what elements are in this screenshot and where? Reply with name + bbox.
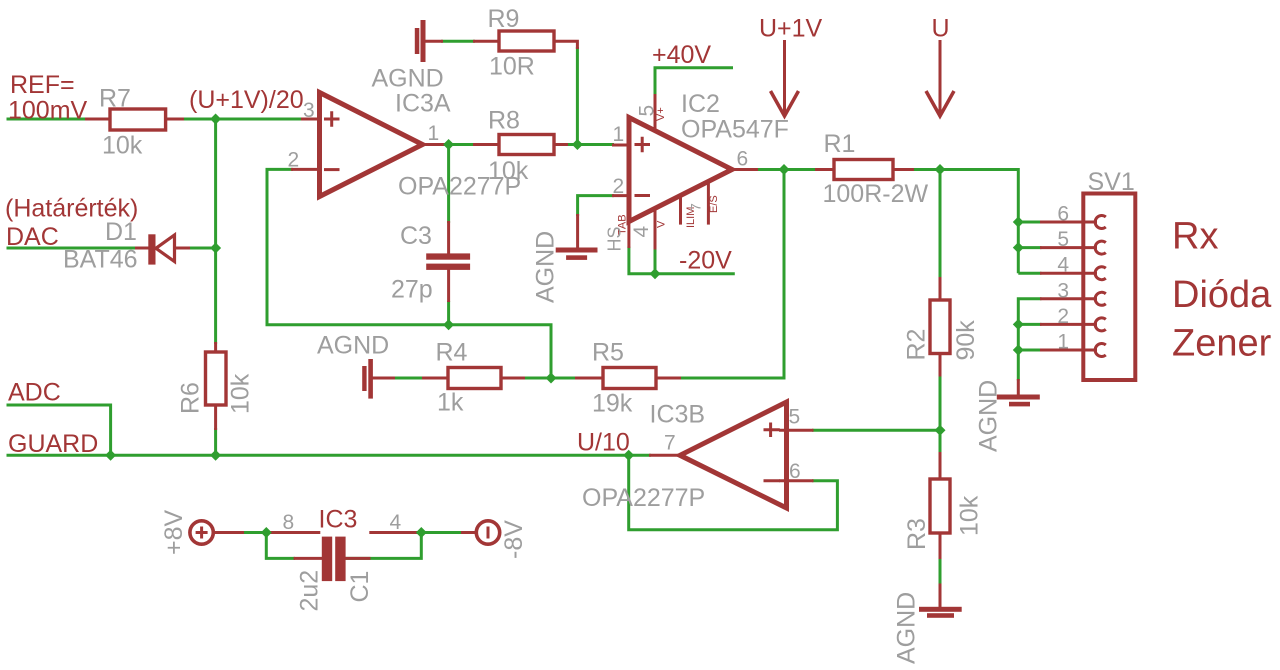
resistor R7 leads [85,118,110,121]
svg-text:R8: R8 [488,107,520,135]
svg-text:+40V: +40V [652,41,711,69]
supply +8V lead [214,531,245,534]
op-amp IC3B pin5 lead [779,429,814,432]
junction IC3A output [443,139,454,150]
capacitor C3 leads [447,221,450,254]
wire IC3 pin4 to -8V [417,531,463,534]
svg-text:(Határérték): (Határérték) [5,195,138,223]
resistor R4 leads [372,377,396,380]
svg-text:1: 1 [428,122,440,145]
connector SV1 ground lead [1017,379,1020,395]
wire vertical bus x=215.6 from node A down to R6 [214,119,217,344]
op-amp IC2 pin4 V- lead [654,207,657,250]
svg-text:10k: 10k [956,495,984,536]
wire AGND R4 gap [395,377,422,380]
svg-text:5: 5 [1057,228,1069,251]
connector SV1 pin3 hook [1095,292,1106,305]
wire +40V to IC2 pin5 [655,68,733,96]
ground AGND symbol at IC2 pin2 [556,248,598,253]
resistor R2 leads [939,277,942,301]
junction node A [210,114,221,125]
op-amp IC2 output lead pin6 [732,168,758,171]
op-amp IC2 pin7 ILIM lead [679,196,682,225]
svg-text:8: 8 [283,511,295,534]
svg-text:2: 2 [288,149,300,172]
op-amp IC2 triangle [629,118,732,222]
connector SV1 pin4 hook [1095,267,1106,280]
svg-text:1: 1 [613,123,625,146]
wire net (U+1V)/20 from R7 to IC3A pin3 [182,118,303,121]
wire R8 right to node C [566,143,614,146]
svg-text:U+1V: U+1V [759,15,823,43]
wire IC2 pin4 to -20V rail [654,248,657,274]
svg-text:R3: R3 [903,518,931,550]
connector SV1 pin3 lead [1040,297,1097,300]
wire +8V to IC3 pin8 [242,531,272,534]
wire IC3B pin5 to node F [812,429,941,432]
capacitor C3 plates [426,253,470,259]
svg-text:4: 4 [1057,254,1069,277]
connector SV1 box [1083,194,1135,381]
capacitor C1 plates [322,537,332,582]
connector SV1 pin6 lead [1040,221,1097,224]
svg-text:7: 7 [688,203,704,211]
svg-text:DAC: DAC [6,223,59,251]
svg-text:3: 3 [1057,279,1069,302]
supply +8V symbol [190,521,213,544]
svg-text:OPA547F: OPA547F [681,116,789,144]
svg-text:2u2: 2u2 [296,570,324,612]
svg-text:AGND: AGND [317,332,389,360]
op-amp IC2 minus mark [635,194,651,197]
supply -8V symbol [476,521,499,544]
diode D1 lead [135,247,190,250]
junction SV1 pin1 [1013,345,1024,356]
connector SV1 pin2 hook [1095,318,1106,331]
wire SV1 pin1 stub [1018,349,1041,352]
wire IC3A output down to C3 [447,145,450,224]
resistor R9 leads [425,40,443,43]
wire C3 bottom to feedback node [447,301,450,325]
svg-text:4: 4 [630,226,653,238]
resistor R3 [930,479,950,533]
svg-text:(U+1V)/20: (U+1V)/20 [189,86,304,114]
svg-text:R9: R9 [488,5,520,33]
junction IC3 pin8 [261,527,272,538]
svg-text:U/10: U/10 [577,429,630,457]
svg-text:OPA2277P: OPA2277P [582,484,705,512]
svg-text:SV1: SV1 [1088,168,1135,196]
svg-text:1: 1 [1057,331,1069,354]
wire net ADC [7,405,111,455]
svg-text:AGND: AGND [372,65,444,93]
wire SV1 pin5 stub [1018,246,1041,249]
wire IC2 TAB/HS down to -20V rail [629,247,735,274]
op-amp IC3A triangle [320,93,423,197]
svg-text:R6: R6 [177,382,205,414]
junction C3 bottom [443,319,454,330]
connector SV1 pin5 hook [1095,241,1106,254]
connector SV1 pin6 hook [1095,216,1106,229]
svg-text:10R: 10R [489,53,535,81]
svg-text:AGND: AGND [975,380,1003,452]
svg-text:27p: 27p [391,276,433,304]
svg-text:10k: 10k [227,373,255,414]
junction SV1 pin2 [1013,319,1024,330]
svg-text:AGND: AGND [893,592,921,664]
svg-text:2: 2 [613,175,625,198]
connector SV1 pin4 lead [1040,272,1097,275]
op-amp IC2 TAB lead [627,222,630,249]
svg-text:7: 7 [664,432,676,455]
junction node E (R1/R2/SV1) [935,164,946,175]
svg-text:R7: R7 [99,85,131,113]
connector SV1 pin1 hook [1095,344,1106,357]
svg-text:1k: 1k [437,389,464,417]
svg-text:100mV: 100mV [8,96,88,124]
svg-text:C1: C1 [346,571,374,603]
wire node E to SV1 upper pins [940,170,1018,274]
wire net GUARD horizontal [7,454,652,457]
IC3 pin4 lead [369,531,419,534]
power arrow U [939,40,942,113]
wire node E down to R2 [939,170,942,279]
op-amp IC3A plus mark [324,111,340,127]
junction SV1 pin6 [1013,217,1024,228]
ground AGND symbol at R4 (rotated) [368,359,373,399]
connector SV1 pin1 lead [1040,349,1097,352]
svg-text:V: V [656,220,668,228]
svg-text:ADC: ADC [8,379,61,407]
junction node F (R2/R3/IC3B pin5) [935,425,946,436]
svg-text:R2: R2 [903,329,931,361]
op-amp IC2 plus mark [635,137,651,153]
svg-text:R1: R1 [824,130,856,158]
resistor R1 leads [815,168,835,171]
resistor R4 [448,368,501,389]
op-amp IC3B output lead pin7 [649,454,681,457]
resistor R5 leads [575,377,604,380]
op-amp IC3A minus mark [324,168,340,171]
resistor R7 [110,109,166,130]
svg-text:R5: R5 [592,339,624,367]
wire R2 bottom to R3 via node F [939,375,942,454]
svg-text:Zener: Zener [1172,323,1272,365]
op-amp IC3A pin3 lead [301,118,320,121]
svg-text:-8V: -8V [500,520,528,559]
svg-text:IC3A: IC3A [395,90,451,118]
wire IC2 pin2 to AGND [578,196,614,216]
op-amp IC2 pin1 lead [612,144,629,147]
svg-text:R4: R4 [436,339,468,367]
supply -8V lead [461,531,476,534]
wire AGND to R9 [441,40,475,43]
wire net REF left of R7 [7,118,108,121]
resistor R3 leads [939,452,942,480]
wire SV1 pin6 stub [1018,221,1041,224]
wire node D down to R5 right lead [681,170,784,379]
svg-text:IC3: IC3 [319,506,358,534]
svg-text:OPA2277P: OPA2277P [398,173,521,201]
power arrow U+1V [783,40,786,113]
svg-text:-20V: -20V [679,247,732,275]
wire IC3A pin2 feedback loop [267,169,551,378]
junction node B (DAC) [210,243,221,254]
svg-text:5: 5 [789,406,801,429]
resistor R6 [206,352,227,405]
svg-text:4: 4 [390,511,402,534]
op-amp IC2 E/S lead [707,182,710,225]
op-amp IC2 pin5 V+ lead [654,94,657,130]
junction ADC/GUARD [105,450,116,461]
svg-text:3: 3 [303,99,315,122]
junction SV1 pin5 [1013,242,1024,253]
wire IC3B pin6 feedback loop [629,455,838,529]
connector SV1 pin5 lead [1040,246,1097,249]
svg-text:Rx: Rx [1172,216,1218,258]
junction node C (R8/R9/IC2 pin1) [572,139,583,150]
wire R9 right down to node C [576,47,579,145]
wire IC3A output to R8 [445,143,475,146]
wire net DAC left of D1 [7,247,138,250]
ground AGND symbol below R3 [919,607,962,612]
wire R4 right to node [525,377,577,380]
svg-text:6: 6 [789,460,801,483]
wire R1 right to node E [912,168,941,171]
wire R6 bottom to GUARD [214,428,217,455]
resistor R8 leads [473,143,499,146]
svg-text:Dióda: Dióda [1172,274,1272,316]
wire D1 cathode to node B [189,247,216,250]
wire SV1 lower pins bus to AGND [1018,299,1041,381]
resistor R9 [499,31,554,51]
wire SV1 pin4 stub [1018,272,1041,275]
svg-text:REF=: REF= [10,71,75,99]
wire C1 right loop [345,533,422,559]
junction IC3 pin4 [416,527,427,538]
svg-text:100R-2W: 100R-2W [823,180,929,208]
op-amp IC3B triangle [680,402,787,508]
diode D1 cathode bar [148,234,155,264]
resistor R1 [834,160,893,180]
op-amp IC3A output lead pin1 [423,143,448,146]
svg-text:IC2: IC2 [681,90,720,118]
wire IC2 output to R1 [756,168,817,171]
ground AGND symbol at R9 (rotated) [421,20,426,62]
ground AGND symbol below SV1 [997,395,1040,400]
capacitor C1 leads [294,557,323,560]
op-amp IC3B plus mark [764,423,780,438]
svg-text:V+: V+ [655,107,667,121]
op-amp IC3B pin6 lead [779,479,814,482]
op-amp IC2 pin2 lead [612,194,629,197]
junction node D (IC2 output) [779,164,790,175]
svg-text:2: 2 [1057,305,1069,328]
svg-text:HS: HS [605,226,625,251]
wire SV1 pin2 stub [1018,323,1041,326]
junction IC3B output [623,450,634,461]
wire R3 bottom lead [939,557,942,585]
svg-text:6: 6 [1057,203,1069,226]
svg-text:E/S: E/S [708,195,720,213]
svg-text:BAT46: BAT46 [63,246,138,274]
svg-text:AGND: AGND [532,231,560,303]
connector SV1 pin2 lead [1040,323,1097,326]
svg-text:19k: 19k [592,390,633,418]
resistor R8 [499,135,554,155]
svg-text:10k: 10k [102,132,143,160]
svg-text:C3: C3 [400,222,432,250]
resistor R2 [930,300,950,354]
svg-text:+8V: +8V [160,509,188,555]
junction R6/GUARD [210,450,221,461]
junction -20V rail [650,268,661,279]
resistor R5 [603,368,656,389]
svg-text:90k: 90k [952,320,980,361]
resistor R6 leads [214,342,217,353]
svg-text:U: U [932,15,950,43]
junction R4/R5 node [546,373,557,384]
wire C1 left loop [266,533,295,559]
IC3 pin8 lead [270,531,320,534]
op-amp IC3B minus mark [764,479,780,482]
ground lead at IC2 pin2 [576,214,579,248]
diode D1 triangle [156,235,175,262]
svg-text:6: 6 [737,148,749,171]
op-amp IC3A pin2 lead [291,168,320,171]
svg-text:GUARD: GUARD [8,430,98,458]
svg-text:IC3B: IC3B [650,401,706,429]
